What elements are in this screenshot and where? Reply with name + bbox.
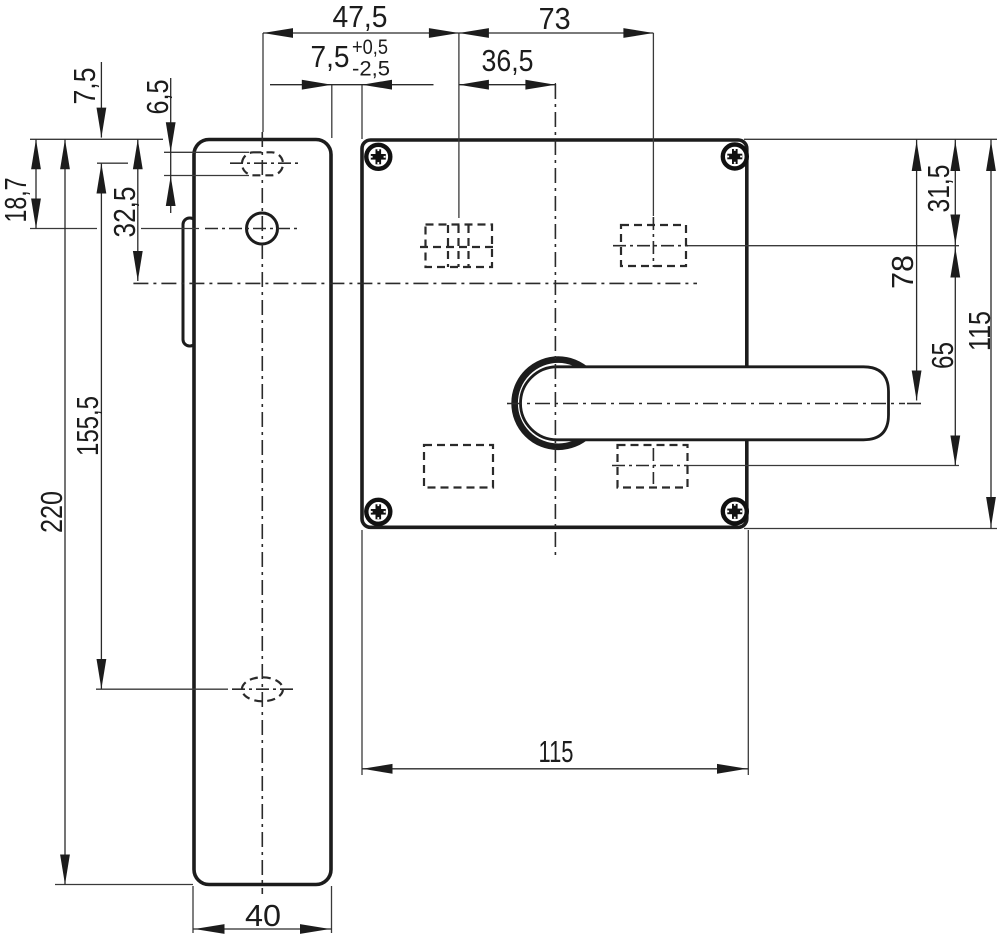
ext: lower oval center [96, 688, 228, 690]
arrows 36,5 [459, 80, 489, 90]
svg-text:115: 115 [962, 311, 997, 351]
dim 78 [916, 139, 918, 400]
centerline horizontal through lever [507, 403, 905, 405]
knockout lower-right, hidden line [618, 445, 688, 488]
ext: hole center to left [30, 228, 97, 230]
centerline cross lower oval [232, 688, 296, 690]
ext: 47,5 left vertical [262, 33, 264, 132]
ext: 40 right vertical [331, 886, 333, 933]
ext: knockout lower-right center to right [688, 465, 959, 467]
ext: plate right edge up [331, 84, 333, 138]
svg-text:7,5: 7,5 [67, 68, 102, 105]
ext: 40 left vertical [192, 886, 194, 933]
screw top-left [366, 145, 390, 169]
svg-text:-2,5: -2,5 [352, 58, 390, 81]
arrows 115 bottom [363, 764, 393, 774]
centerline horizontal through case upper holes [133, 282, 697, 284]
ext: 47,5/73 junction down [458, 33, 460, 218]
knockout upper-left (follower hub), hidden line [420, 225, 497, 268]
dim 7,5 top [270, 84, 434, 86]
arrows 40 [195, 924, 225, 934]
svg-text:7,5: 7,5 [311, 39, 350, 74]
ext: knockout upper-right center to right [688, 245, 959, 247]
svg-text:18,7: 18,7 [0, 178, 33, 223]
dim 36,5 [459, 84, 556, 86]
svg-text:115: 115 [539, 734, 574, 769]
round hole in faceplate [247, 213, 278, 244]
dim 7,5 left [100, 62, 102, 138]
rose (handle collar) circle [515, 360, 602, 447]
svg-text:6,5: 6,5 [140, 80, 175, 115]
dim 6,5 [170, 78, 172, 213]
centerline vertical through case hub [554, 84, 556, 558]
ext: case top to right [744, 138, 997, 140]
lock case body [362, 140, 747, 527]
svg-text:+0,5: +0,5 [352, 36, 388, 59]
slot (obround) top of faceplate, hidden line [242, 152, 283, 175]
arrows 78 [912, 141, 922, 171]
svg-text:31,5: 31,5 [921, 165, 956, 213]
lever handle [521, 367, 889, 440]
svg-text:36,5: 36,5 [482, 43, 534, 78]
svg-text:220: 220 [34, 491, 69, 533]
ext: slot center tick [97, 162, 128, 164]
arrows 65 [950, 248, 960, 278]
arrows 155,5 [97, 164, 107, 194]
ext: case bottom to right [744, 528, 997, 530]
arrows 47,5 [263, 28, 293, 38]
centerline cross hole [205, 228, 298, 230]
faceplate (long strike plate) [194, 140, 331, 885]
svg-text:155,5: 155,5 [70, 396, 105, 456]
dim 115 bottom [362, 768, 748, 770]
centerline cross knockout lower-right [612, 465, 688, 467]
dim 31,5 / 65 [954, 139, 956, 465]
centerline cross knockout upper-right [613, 245, 688, 247]
arrows 32,5 [133, 139, 143, 169]
knockout lower-left, hidden line [424, 445, 493, 488]
arrows 220 [60, 139, 70, 169]
dim 220 [64, 139, 66, 884]
ext: case left edge down [361, 530, 363, 775]
ext: case right edge down [747, 530, 749, 775]
screw top-right [723, 145, 747, 169]
ext: plate top to left [30, 138, 163, 140]
ext: 73 right down [652, 33, 654, 216]
dim 115 right [990, 139, 992, 528]
ext: 36,5 right short [554, 83, 556, 84]
svg-text:32,5: 32,5 [107, 187, 142, 238]
arrows 31,5 [950, 141, 960, 171]
arrows 6,5 (outside) [166, 122, 176, 152]
svg-text:47,5: 47,5 [333, 0, 388, 34]
svg-text:78: 78 [885, 255, 920, 289]
svg-text:73: 73 [539, 1, 571, 36]
dim 155,5 [100, 164, 102, 690]
knockout upper-right, hidden line [621, 225, 686, 266]
screw bottom-right [723, 499, 747, 523]
ext: slot top/bottom to left [164, 151, 249, 153]
arrow 7,5 left (down onto plate top) [97, 108, 107, 138]
arrows 18,7 [31, 139, 41, 169]
dim 73 [459, 32, 654, 34]
latch lip bar (left of faceplate) [183, 218, 197, 346]
centerline cross slot [230, 162, 298, 164]
dim 18,7 [35, 139, 37, 228]
screw bottom-left [366, 500, 390, 524]
svg-text:40: 40 [245, 898, 281, 933]
lower oval hole in faceplate, hidden line [242, 677, 283, 701]
dim 32,5 [137, 139, 139, 281]
ext: plate bottom to left [55, 884, 193, 886]
dim 47,5 [263, 32, 459, 34]
arrows 115 right [986, 141, 996, 171]
dim 40 [193, 928, 332, 930]
centerline vertical of faceplate [261, 132, 263, 894]
arrows 73 [459, 28, 489, 38]
ext: case left edge up [361, 84, 363, 139]
arrows 7,5 top (outside) [302, 80, 332, 90]
svg-text:65: 65 [925, 342, 960, 369]
